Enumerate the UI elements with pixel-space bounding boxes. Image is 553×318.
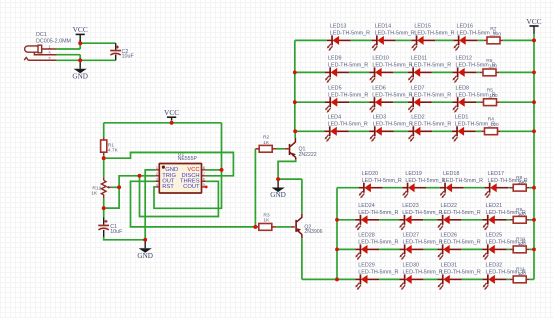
svg-text:1K: 1K [263,218,270,224]
svg-text:GND: GND [72,72,88,80]
svg-text:LED-TH-5mm_R: LED-TH-5mm_R [403,240,443,246]
svg-text:LED24: LED24 [358,203,374,209]
svg-text:LED16: LED16 [457,24,473,30]
svg-text:LED2: LED2 [411,115,425,121]
svg-text:100: 100 [518,179,526,185]
svg-text:LED-TH-5mm_R: LED-TH-5mm_R [414,31,454,37]
svg-text:LED-TH-5mm_R: LED-TH-5mm_R [411,121,451,127]
svg-text:LED13: LED13 [330,24,346,30]
svg-text:100: 100 [518,212,526,218]
svg-text:LED-TH-5mm_R: LED-TH-5mm_R [358,210,398,216]
svg-text:R3: R3 [263,213,270,219]
svg-text:R2: R2 [263,135,270,141]
svg-text:LED-TH-5mm_R: LED-TH-5mm_R [328,121,368,127]
svg-text:LED-TH-5mm_R: LED-TH-5mm_R [375,31,415,37]
svg-text:LED23: LED23 [402,203,418,209]
svg-text:R1: R1 [108,142,115,148]
svg-text:LED-TH-5mm_R: LED-TH-5mm_R [358,270,398,276]
svg-text:LED26: LED26 [441,233,457,239]
svg-text:5: 5 [203,182,205,187]
svg-text:LED-TH-5mm_R: LED-TH-5mm_R [330,31,370,37]
svg-text:100: 100 [489,63,497,69]
svg-text:LED-TH-5mm_R: LED-TH-5mm_R [358,240,398,246]
svg-text:LED6: LED6 [372,86,386,92]
svg-text:VCC: VCC [526,17,541,26]
svg-text:LED20: LED20 [362,171,378,177]
svg-text:2N3906: 2N3906 [304,229,322,235]
svg-text:6: 6 [203,176,205,181]
svg-text:LED-TH-5mm_R: LED-TH-5mm_R [441,210,481,216]
svg-text:100: 100 [490,122,498,128]
svg-text:7: 7 [203,171,205,176]
svg-text:LED32: LED32 [486,263,502,269]
svg-text:LED-TH-5mm_R: LED-TH-5mm_R [411,63,451,69]
svg-text:R7: R7 [490,26,497,32]
svg-text:LED-TH-5mm_R: LED-TH-5mm_R [441,240,481,246]
svg-text:DC1: DC1 [36,32,47,38]
svg-text:8: 8 [203,165,205,170]
svg-text:LED25: LED25 [486,233,502,239]
svg-text:R5: R5 [487,88,494,94]
svg-text:10uF: 10uF [122,54,135,60]
svg-text:2N2222: 2N2222 [299,152,317,158]
svg-text:LED15: LED15 [414,24,430,30]
svg-text:100: 100 [518,241,526,247]
svg-text:LED21: LED21 [486,203,502,209]
svg-text:100: 100 [489,93,497,99]
svg-text:LED28: LED28 [358,233,374,239]
svg-text:LED-TH-5mm_R: LED-TH-5mm_R [411,92,451,98]
svg-text:GND: GND [270,191,286,199]
svg-text:1K: 1K [91,191,98,197]
svg-text:LED18: LED18 [443,171,459,177]
svg-text:LED-TH-5mm_R: LED-TH-5mm_R [403,270,443,276]
svg-text:3: 3 [156,176,158,181]
svg-text:LED29: LED29 [358,263,374,269]
svg-text:LED-TH-5mm_R: LED-TH-5mm_R [443,178,483,184]
svg-text:NE555P: NE555P [178,156,198,162]
svg-text:LED7: LED7 [411,86,425,92]
svg-text:LED10: LED10 [372,56,388,62]
svg-text:LED30: LED30 [403,263,419,269]
svg-text:LED14: LED14 [375,24,391,30]
svg-text:VCC: VCC [73,25,88,34]
svg-text:LED-TH-5mm_R: LED-TH-5mm_R [372,63,412,69]
svg-text:R4: R4 [488,117,495,123]
svg-text:LED1: LED1 [455,115,469,121]
svg-text:LED-TH-5mm_R: LED-TH-5mm_R [441,270,481,276]
svg-text:LED-TH-5mm_R: LED-TH-5mm_R [362,178,402,184]
svg-text:DC005-2.0MM: DC005-2.0MM [36,39,72,45]
svg-text:LED-TH-5mm_R: LED-TH-5mm_R [373,121,413,127]
svg-text:LED-TH-5mm_R: LED-TH-5mm_R [328,63,368,69]
svg-text:LED9: LED9 [328,56,342,62]
svg-text:LED22: LED22 [441,203,457,209]
svg-text:LED-TH-5mm_R: LED-TH-5mm_R [405,178,445,184]
svg-text:1: 1 [156,165,158,170]
svg-text:1K: 1K [263,140,270,146]
svg-text:LED19: LED19 [405,171,421,177]
svg-text:10uF: 10uF [110,229,123,235]
svg-text:LED3: LED3 [373,115,387,121]
svg-text:LED31: LED31 [441,263,457,269]
svg-text:COUT: COUT [183,184,200,190]
svg-text:LED4: LED4 [328,115,342,121]
svg-text:2: 2 [156,171,158,176]
svg-text:LED11: LED11 [411,56,427,62]
svg-text:GND: GND [137,252,153,260]
svg-text:VCC: VCC [164,108,179,117]
svg-text:R6: R6 [486,58,493,64]
svg-text:LED-TH-5mm_R: LED-TH-5mm_R [402,210,442,216]
svg-text:LED27: LED27 [403,233,419,239]
svg-text:LED8: LED8 [456,86,470,92]
svg-text:100: 100 [518,271,526,277]
svg-text:RST: RST [162,184,174,190]
svg-text:4.7K: 4.7K [108,148,119,154]
svg-text:LED5: LED5 [328,86,342,92]
svg-text:LED12: LED12 [456,56,472,62]
svg-text:100: 100 [493,31,501,37]
svg-text:LED17: LED17 [488,171,504,177]
svg-text:LED-TH-5mm_R: LED-TH-5mm_R [372,92,412,98]
svg-text:LED-TH-5mm_R: LED-TH-5mm_R [328,92,368,98]
